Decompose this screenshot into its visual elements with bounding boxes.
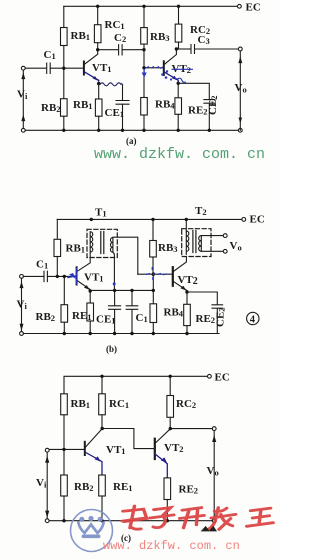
- junction dots b: [56, 218, 189, 335]
- wire C1 to base a: [50, 67, 83, 69]
- node Vo terminal b bottom: [223, 249, 227, 253]
- resistor RB2 a: [63, 68, 65, 99]
- char zi: [150, 508, 174, 528]
- emitter VT1 a (blue traced): [85, 72, 99, 81]
- svg-text:RE1: RE1: [72, 310, 92, 322]
- wire Vi line c: [46, 452, 48, 519]
- transformer T1 secondary: [110, 238, 112, 253]
- svg-text:RE1: RE1: [113, 481, 133, 493]
- wire input to C1 b: [23, 275, 43, 277]
- transformer T2 primary: [186, 231, 189, 254]
- black mark near rail right: [202, 527, 217, 532]
- blue traced base VT1 b: [68, 269, 77, 285]
- resistor RE2 a: [177, 83, 179, 98]
- resistor RC2 c: [169, 376, 171, 395]
- resistor RB1 a: [63, 6, 65, 27]
- svg-text:C1: C1: [44, 49, 56, 61]
- svg-text:RC1: RC1: [105, 19, 125, 31]
- resistor RB1 b: [56, 219, 58, 239]
- wire collector node to C2 a: [98, 49, 118, 51]
- resistor RB2 b: [63, 276, 65, 304]
- transformer T2 dashed box: [182, 229, 211, 257]
- emitter arrow VT1 b: [84, 285, 89, 290]
- wire T1 secondary bottom down: [113, 252, 115, 290]
- svg-text:RB1: RB1: [66, 243, 86, 255]
- transistor VT2 a: [163, 61, 165, 75]
- resistor RE2 b: [186, 292, 188, 304]
- resistor RB4 b: [150, 304, 157, 323]
- transformer T1 primary: [90, 232, 93, 252]
- junction dots a: [62, 5, 211, 132]
- transformer T1 core bars: [101, 232, 104, 254]
- circled 4: [247, 312, 259, 324]
- svg-text:Vo: Vo: [230, 240, 242, 253]
- transistor VT1 b: [76, 267, 78, 284]
- node output terminal c bottom: [212, 519, 216, 523]
- arrow Vo up a: [238, 57, 242, 64]
- char kai: [180, 508, 205, 528]
- svg-text:RB1: RB1: [71, 30, 91, 42]
- capacitor CE2 a: [204, 100, 215, 104]
- transistor VT1 c: [84, 442, 86, 455]
- wire emitter2 to CE2 a: [178, 83, 209, 99]
- wire top rail c: [65, 375, 208, 377]
- svg-text:CE2: CE2: [207, 95, 219, 115]
- svg-text:C3: C3: [198, 34, 210, 46]
- emitter VT2 a (blue traced): [164, 72, 178, 83]
- svg-text:EC: EC: [215, 372, 230, 384]
- wire base wire stage2 a: [144, 67, 163, 69]
- arrow Vi b: [20, 281, 24, 288]
- node input terminal a bottom: [21, 128, 25, 132]
- blue scribble near VT2 a: [174, 77, 186, 82]
- svg-text:VT2: VT2: [178, 274, 198, 287]
- wire T2 primary top: [185, 219, 187, 231]
- svg-text:RB2: RB2: [41, 102, 61, 114]
- wire Vo line c: [213, 431, 215, 519]
- node EC terminal c: [208, 374, 212, 378]
- wire input to C1 a: [25, 67, 46, 69]
- node input terminal c bottom: [45, 519, 49, 523]
- node input terminal b bottom: [20, 332, 24, 336]
- svg-text:Vi: Vi: [17, 89, 28, 102]
- resistor RB4 a: [143, 68, 145, 98]
- char wang: [247, 508, 273, 526]
- svg-text:www. dzkfw. com. cn: www. dzkfw. com. cn: [94, 146, 265, 163]
- arrow Vi c lower: [45, 511, 49, 518]
- svg-text:VT1: VT1: [92, 62, 112, 74]
- svg-text:RB1: RB1: [71, 398, 91, 410]
- wire input to base c: [49, 448, 84, 450]
- capacitor C1 bypass b: [126, 290, 138, 333]
- capacitor C1 input b: [44, 271, 47, 281]
- svg-text:VT1: VT1: [106, 444, 126, 456]
- node input terminal b top: [20, 275, 24, 279]
- emitter VT1 b: [77, 281, 90, 292]
- emitter VT2 c (blue traced): [155, 454, 167, 478]
- emitter arrow VT2 b: [181, 286, 187, 291]
- svg-text:RB2: RB2: [74, 481, 94, 493]
- node output terminal a top: [238, 47, 242, 51]
- capacitor C2 a: [119, 45, 123, 55]
- svg-text:Vo: Vo: [235, 82, 247, 95]
- svg-text:EC: EC: [250, 214, 265, 226]
- transformer T2 core bars: [193, 231, 196, 253]
- svg-text:VT2: VT2: [164, 442, 184, 454]
- resistor RE1 a (labelled RB1): [98, 84, 100, 99]
- wire C3 to output a: [195, 48, 239, 50]
- svg-text:VT1: VT1: [84, 272, 104, 284]
- svg-text:RB4: RB4: [164, 307, 184, 319]
- resistor RC2 a: [178, 6, 180, 24]
- svg-text:CE2: CE2: [215, 307, 227, 327]
- resistor RB3 a: [143, 6, 145, 27]
- svg-text:RB1: RB1: [73, 99, 93, 111]
- wire emitter row b: [90, 289, 153, 291]
- svg-text:RB2: RB2: [36, 311, 56, 323]
- wire T1 secondary top to base node: [113, 237, 138, 274]
- arrow Vo lower a: [239, 118, 243, 124]
- svg-text:RB4: RB4: [155, 99, 175, 111]
- emitter arrow VT1 a: [93, 76, 98, 81]
- svg-text:C1: C1: [36, 259, 48, 271]
- wire base node down to RB4 b: [152, 274, 154, 304]
- resistor RE1 b: [89, 291, 91, 303]
- blue annotations a: [142, 67, 193, 78]
- wire Vo line a: [239, 51, 241, 130]
- svg-text:C2: C2: [114, 32, 126, 44]
- logo W circle: [71, 510, 113, 552]
- transformer T2 secondary: [199, 236, 202, 252]
- wire collector node to output c: [170, 428, 212, 430]
- svg-text:4: 4: [250, 315, 256, 326]
- svg-text:RC1: RC1: [109, 398, 129, 410]
- labels circuit b: [17, 205, 265, 354]
- wire C1 to base b: [47, 275, 76, 277]
- svg-text:Vi: Vi: [36, 477, 47, 490]
- svg-text:(a): (a): [126, 136, 137, 146]
- wire top rail a: [64, 5, 238, 7]
- svg-text:RB3: RB3: [150, 31, 170, 43]
- resistor RB1 c: [63, 376, 65, 394]
- svg-text:C1: C1: [136, 312, 148, 324]
- svg-text:Vi: Vi: [17, 299, 28, 312]
- emitter arrow VT1 c: [95, 456, 101, 461]
- labels circuit a: [17, 2, 261, 147]
- transistor VT1 a: [83, 62, 85, 75]
- emitter VT1 c (blue traced): [85, 452, 102, 475]
- wire bottom rail b: [23, 333, 219, 335]
- transistor VT2 b: [172, 267, 174, 286]
- transistor VT2 c: [154, 439, 156, 459]
- capacitor C1 a: [47, 63, 51, 73]
- wire top rail b: [57, 218, 242, 220]
- resistor RB3 b: [152, 219, 154, 240]
- capacitor C3 a: [191, 45, 195, 54]
- svg-text:CE1: CE1: [105, 107, 125, 119]
- arrow Vo c: [212, 435, 216, 442]
- wire collector2 node to C3 a: [176, 48, 190, 50]
- node input terminal a top: [21, 66, 25, 70]
- svg-text:RE2: RE2: [188, 105, 208, 117]
- emitter arrow VT2 a: [172, 76, 177, 81]
- svg-text:EC: EC: [246, 2, 261, 14]
- node output terminal c top: [212, 427, 216, 431]
- node input terminal c top: [45, 448, 49, 452]
- svg-text:RE2: RE2: [196, 313, 216, 325]
- svg-text:(b): (b): [106, 344, 117, 354]
- node EC terminal a: [238, 4, 242, 8]
- resistor RC1 c: [101, 376, 103, 394]
- wire Vi line a: [22, 70, 24, 128]
- resistor RB2 c: [63, 449, 65, 475]
- capacitor CE2 b: [212, 305, 223, 334]
- resistor RC1 a: [97, 6, 99, 24]
- wire bottom rail a: [25, 129, 238, 131]
- capacitor CE1 b: [109, 290, 121, 333]
- node output terminal a bottom: [238, 128, 242, 132]
- resistor RE2 c: [164, 478, 171, 500]
- svg-text:T1: T1: [95, 207, 107, 219]
- wire T2 secondary outputs: [201, 236, 223, 252]
- wire base node to VT2 b: [138, 273, 172, 275]
- resistor RE1 c: [99, 475, 106, 496]
- capacitor CE1 a: [116, 101, 129, 105]
- arrow Vi bottom a: [21, 115, 25, 122]
- arrow Vi c: [45, 456, 49, 463]
- emitter VT2 b: [173, 282, 187, 293]
- arrow Vi top a: [21, 73, 25, 80]
- char dian: [122, 506, 147, 529]
- svg-text:T2: T2: [195, 205, 207, 217]
- wire bottom rail c: [49, 520, 212, 522]
- junction dots c: [62, 375, 172, 523]
- transformer T1 dashed box: [87, 229, 117, 257]
- char fa: [208, 508, 236, 530]
- labels circuit c: [36, 372, 230, 544]
- svg-text:Vo: Vo: [207, 465, 219, 478]
- emitter arrow VT2 c: [161, 457, 167, 463]
- svg-text:www. dzkfw. com. cn: www. dzkfw. com. cn: [103, 539, 240, 553]
- wire emitter2 to CE2 b: [187, 292, 217, 304]
- svg-text:RE2: RE2: [179, 484, 199, 496]
- red watermark big characters 电子开发网: [122, 506, 273, 529]
- wire C2 to RB3 node a: [122, 49, 144, 51]
- node Vo terminal b top: [223, 234, 227, 238]
- blue annotations b: [146, 267, 167, 280]
- wire squiggle emitter to CE1 a: [100, 83, 122, 86]
- svg-text:RC2: RC2: [176, 398, 196, 410]
- wire collector VT1 to base VT2 c: [102, 429, 154, 449]
- node EC terminal b: [242, 218, 246, 222]
- wire Vi line b: [21, 278, 23, 331]
- arrow Vi b lower: [20, 324, 24, 331]
- svg-text:CE1: CE1: [96, 314, 116, 326]
- svg-text:RB3: RB3: [158, 242, 178, 254]
